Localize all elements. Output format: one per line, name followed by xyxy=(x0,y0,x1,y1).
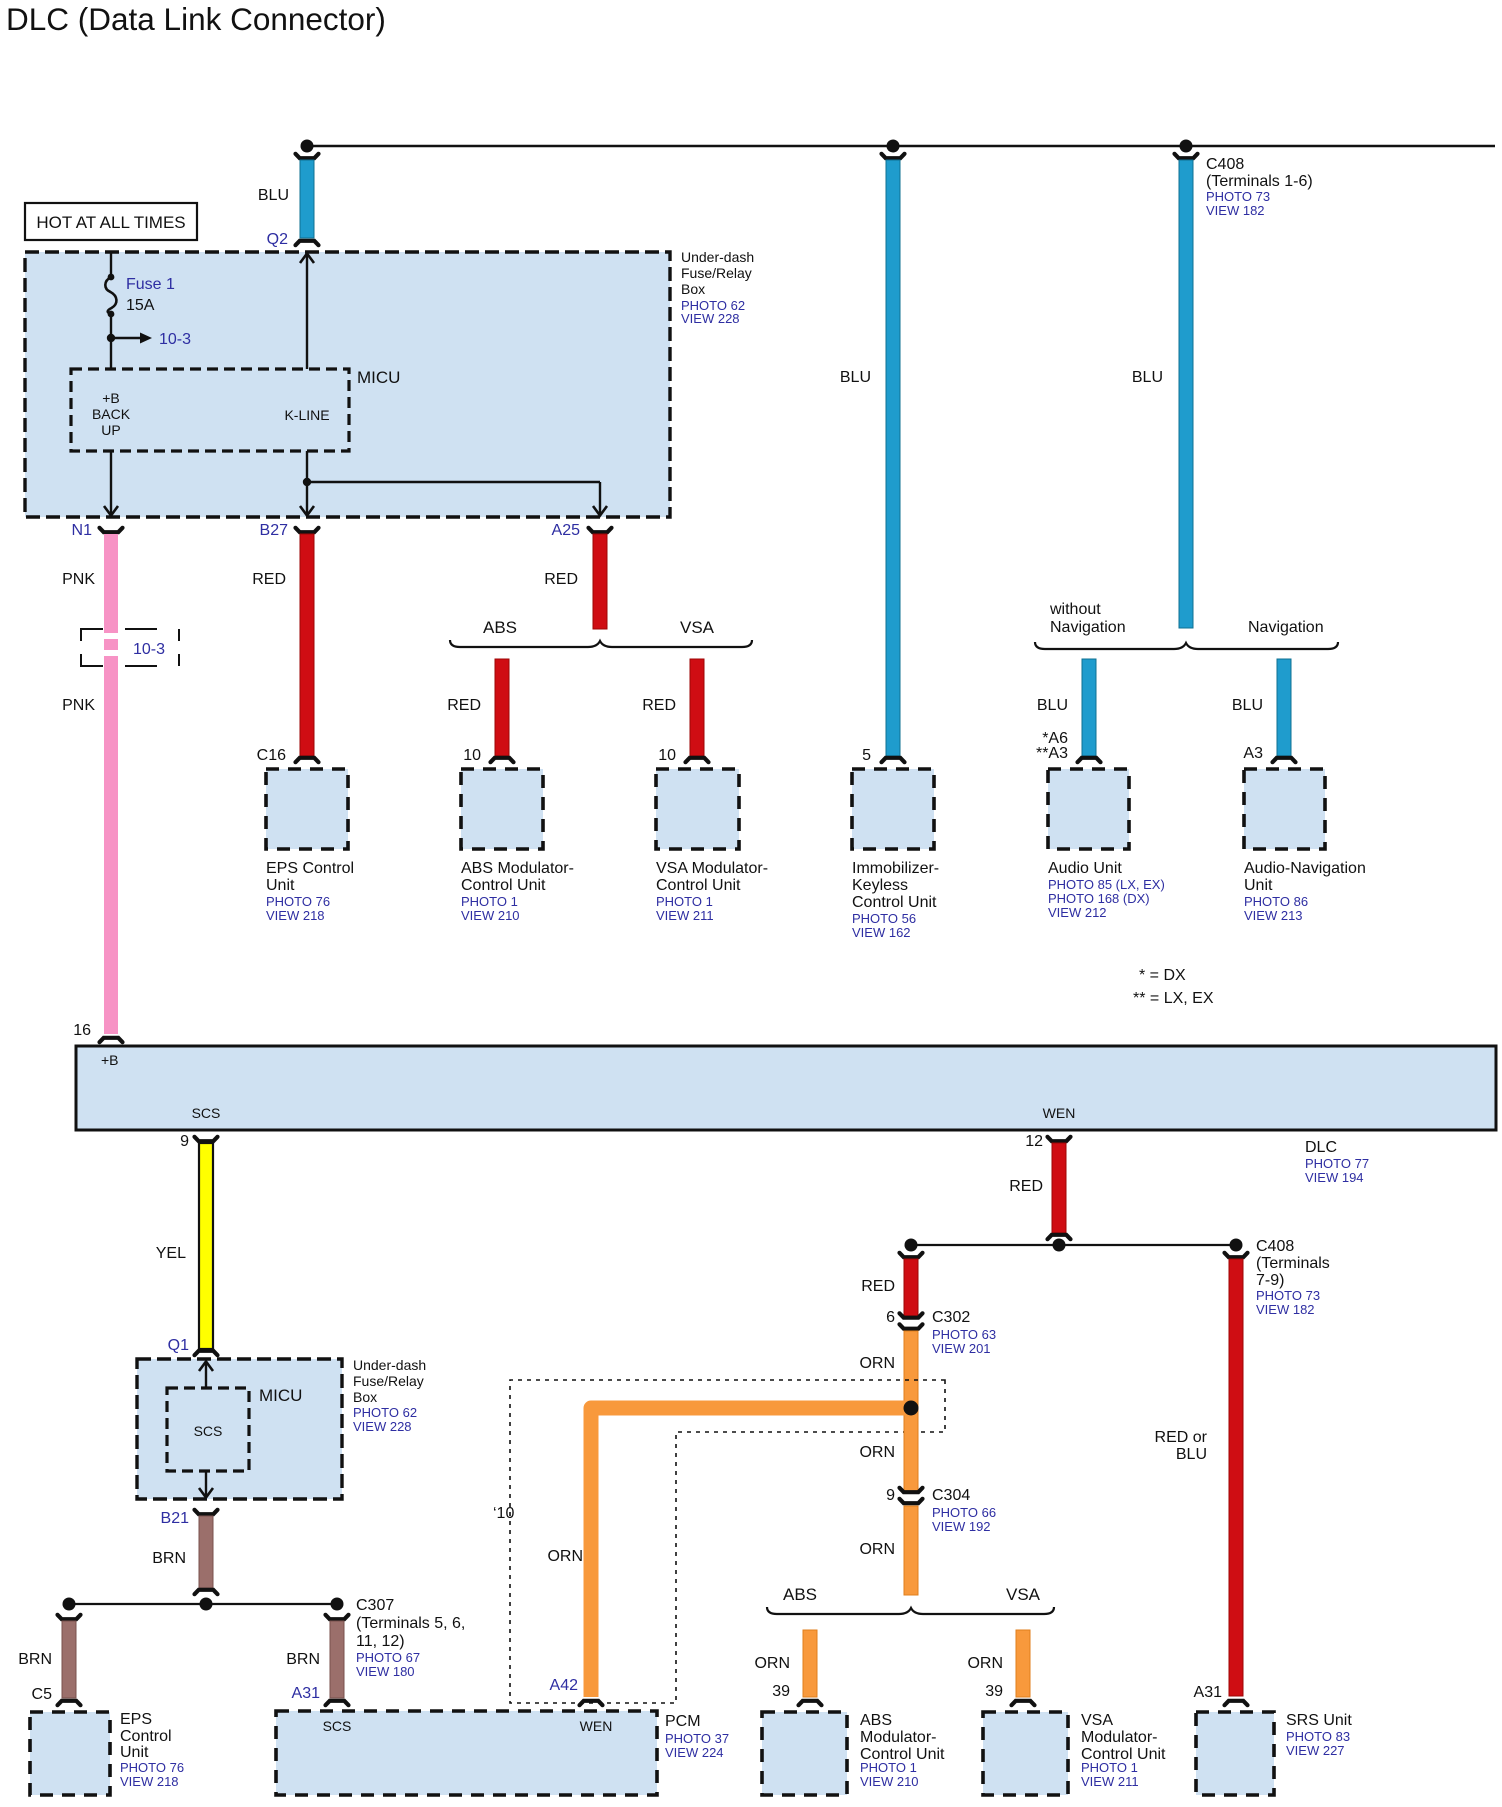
svg-text:15A: 15A xyxy=(126,297,155,314)
svg-text:C304: C304 xyxy=(932,1487,970,1504)
svg-text:VIEW 194: VIEW 194 xyxy=(1305,1170,1364,1185)
svg-text:BLU: BLU xyxy=(258,187,289,204)
svg-text:Q2: Q2 xyxy=(267,231,288,248)
svg-text:ORN: ORN xyxy=(967,1655,1003,1672)
wire BRN to EPS C5 xyxy=(62,1621,76,1698)
svg-text:VIEW 210: VIEW 210 xyxy=(860,1774,919,1789)
wire RED to VSA modulator xyxy=(690,659,704,756)
connector cap DLC pin 16 xyxy=(100,1038,123,1042)
svg-text:+B: +B xyxy=(102,390,120,406)
svg-text:BACK: BACK xyxy=(92,406,131,422)
svg-text:Q1: Q1 xyxy=(168,1337,189,1354)
svg-text:VSA: VSA xyxy=(1006,1585,1041,1604)
svg-text:DLC: DLC xyxy=(1305,1139,1337,1156)
svg-text:PHOTO 76: PHOTO 76 xyxy=(266,894,330,909)
svg-text:VIEW 211: VIEW 211 xyxy=(1081,1774,1139,1789)
svg-text:A25: A25 xyxy=(552,522,581,539)
svg-text:VSA: VSA xyxy=(1081,1712,1113,1729)
reference bracket 10-3 xyxy=(81,629,179,666)
wire ORN elbow to PCM A42 xyxy=(591,1408,908,1697)
svg-text:PHOTO 63: PHOTO 63 xyxy=(932,1327,996,1342)
wire BLU to Q2 xyxy=(300,160,314,238)
svg-text:PHOTO 86: PHOTO 86 xyxy=(1244,894,1308,909)
connector cap audio-nav xyxy=(1273,758,1296,762)
svg-text:10-3: 10-3 xyxy=(159,331,191,348)
svg-text:ABS: ABS xyxy=(483,618,517,637)
svg-text:PHOTO 77: PHOTO 77 xyxy=(1305,1156,1369,1171)
connector cap top of BLU Q2 wire xyxy=(296,154,319,158)
svg-text:PHOTO 83: PHOTO 83 xyxy=(1286,1729,1350,1744)
svg-text:N1: N1 xyxy=(72,522,93,539)
wire: K-LINE up to Q2 xyxy=(306,254,308,369)
svg-text:BLU: BLU xyxy=(1232,697,1263,714)
svg-text:EPS Control: EPS Control xyxy=(266,860,354,877)
svg-text:Fuse/Relay: Fuse/Relay xyxy=(681,265,752,281)
connector cap audio xyxy=(1078,758,1101,762)
svg-text:VIEW 228: VIEW 228 xyxy=(353,1419,412,1434)
svg-text:BRN: BRN xyxy=(18,1651,52,1668)
svg-text:(Terminals 5, 6,: (Terminals 5, 6, xyxy=(356,1615,465,1632)
svg-text:Audio-Navigation: Audio-Navigation xyxy=(1244,860,1366,877)
svg-text:VIEW 211: VIEW 211 xyxy=(656,908,714,923)
svg-text:BLU: BLU xyxy=(1176,1446,1207,1463)
svg-text:VIEW 227: VIEW 227 xyxy=(1286,1743,1345,1758)
svg-text:WEN: WEN xyxy=(580,1718,613,1734)
svg-text:UP: UP xyxy=(101,422,120,438)
svg-text:RED: RED xyxy=(642,697,676,714)
wire ORN to ABS modulator (39) xyxy=(803,1630,817,1697)
component box PCM (SCS/WEN) xyxy=(276,1711,657,1795)
svg-text:K-LINE: K-LINE xyxy=(284,407,329,423)
svg-text:PHOTO 1: PHOTO 1 xyxy=(1081,1760,1138,1775)
node: junction below WEN wire xyxy=(1053,1239,1066,1252)
svg-text:WEN: WEN xyxy=(1043,1105,1076,1121)
svg-text:Navigation: Navigation xyxy=(1248,619,1324,636)
svg-text:Control: Control xyxy=(120,1728,172,1745)
svg-text:without: without xyxy=(1049,601,1101,618)
svg-text:Modulator-: Modulator- xyxy=(1081,1729,1157,1746)
svg-text:6: 6 xyxy=(886,1309,895,1326)
wire: lower horizontal link line xyxy=(911,1244,1236,1246)
svg-text:PHOTO 66: PHOTO 66 xyxy=(932,1505,996,1520)
svg-text:HOT AT ALL TIMES: HOT AT ALL TIMES xyxy=(36,213,185,232)
component box: Under-dash Fuse/Relay Box (top) xyxy=(25,252,670,517)
svg-text:Under-dash: Under-dash xyxy=(681,249,754,265)
connector cap Q2 xyxy=(296,241,319,245)
svg-text:C408: C408 xyxy=(1206,156,1244,173)
connector C304 inline caps xyxy=(900,1488,923,1492)
component box EPS Control Unit (top row) xyxy=(266,769,348,849)
svg-text:VIEW 218: VIEW 218 xyxy=(120,1774,179,1789)
svg-text:SRS Unit: SRS Unit xyxy=(1286,1712,1352,1729)
svg-text:PHOTO 62: PHOTO 62 xyxy=(353,1405,417,1420)
svg-text:Control Unit: Control Unit xyxy=(656,877,741,894)
wire RED B27 to C16 xyxy=(300,534,314,756)
svg-text:Audio Unit: Audio Unit xyxy=(1048,860,1122,877)
wire RED to C302 xyxy=(904,1259,918,1316)
connector cap VSA pin 10 xyxy=(686,758,709,762)
svg-text:PHOTO 168 (DX): PHOTO 168 (DX) xyxy=(1048,891,1150,906)
svg-text:ORN: ORN xyxy=(859,1444,895,1461)
component bar DLC xyxy=(76,1046,1496,1130)
svg-text:B21: B21 xyxy=(161,1510,190,1527)
svg-text:EPS: EPS xyxy=(120,1711,152,1728)
connector cap top of immobilizer BLU wire xyxy=(882,154,905,158)
node: junction dot left xyxy=(301,140,314,153)
svg-text:10-3: 10-3 xyxy=(133,641,165,658)
svg-text:Navigation: Navigation xyxy=(1050,619,1126,636)
svg-text:ABS: ABS xyxy=(860,1712,892,1729)
svg-text:BLU: BLU xyxy=(1132,369,1163,386)
component box Audio-Navigation Unit xyxy=(1244,769,1325,849)
svg-text:Under-dash: Under-dash xyxy=(353,1357,426,1373)
svg-text:VIEW 228: VIEW 228 xyxy=(681,311,740,326)
svg-text:Keyless: Keyless xyxy=(852,877,908,894)
connector cap immobilizer pin 5 xyxy=(882,758,905,762)
wire: +B BACK UP down to N1 xyxy=(110,451,112,515)
wire PNK N1 to DLC pin 16 xyxy=(104,534,118,1034)
svg-text:SCS: SCS xyxy=(192,1105,221,1121)
svg-text:+B: +B xyxy=(101,1052,119,1068)
connector cap C5 xyxy=(58,1701,81,1705)
connector cap A25 xyxy=(589,528,612,532)
component box VSA Modulator-Control Unit (top row) xyxy=(656,769,739,849)
svg-text:PHOTO 56: PHOTO 56 xyxy=(852,911,916,926)
wire: Q1 into MICU SCS xyxy=(205,1362,207,1388)
wire: branch to A25 xyxy=(307,481,600,483)
svg-text:VSA: VSA xyxy=(680,618,715,637)
wire RED A25 stub xyxy=(593,534,607,629)
svg-text:ORN: ORN xyxy=(754,1655,790,1672)
component box Audio Unit xyxy=(1048,769,1129,849)
component box ABS Modulator-Control Unit (bottom) xyxy=(762,1712,847,1795)
svg-text:Control Unit: Control Unit xyxy=(461,877,546,894)
svg-text:9: 9 xyxy=(180,1133,189,1150)
connector cap B27 xyxy=(296,528,319,532)
svg-text:C5: C5 xyxy=(32,1686,53,1703)
svg-text:RED: RED xyxy=(252,571,286,588)
svg-text:VSA Modulator-: VSA Modulator- xyxy=(656,860,768,877)
svg-text:PHOTO 1: PHOTO 1 xyxy=(461,894,518,909)
wire RED to ABS modulator xyxy=(495,659,509,756)
svg-text:VIEW 180: VIEW 180 xyxy=(356,1664,415,1679)
svg-text:ABS: ABS xyxy=(783,1585,817,1604)
svg-text:VIEW 192: VIEW 192 xyxy=(932,1519,991,1534)
node: junction center xyxy=(200,1598,213,1611)
connector cap top of A31 BRN wire xyxy=(326,1615,349,1619)
wire BRN to PCM A31 xyxy=(330,1621,344,1698)
node: junction C307 xyxy=(331,1598,344,1611)
svg-text:VIEW 210: VIEW 210 xyxy=(461,908,520,923)
svg-text:SCS: SCS xyxy=(323,1718,352,1734)
connector cap DLC pin 9 xyxy=(195,1137,218,1141)
svg-text:MICU: MICU xyxy=(259,1386,302,1405)
svg-text:A31: A31 xyxy=(1194,1684,1223,1701)
svg-text:C16: C16 xyxy=(257,747,286,764)
svg-text:12: 12 xyxy=(1025,1133,1043,1150)
connector cap top of RED or BLU wire xyxy=(1225,1253,1248,1257)
svg-text:PHOTO 73: PHOTO 73 xyxy=(1256,1288,1320,1303)
wire ORN C302 to junction xyxy=(904,1331,918,1408)
brace Navigation options xyxy=(1035,642,1338,649)
svg-text:PHOTO 67: PHOTO 67 xyxy=(356,1650,420,1665)
svg-text:Unit: Unit xyxy=(1244,877,1273,894)
svg-text:* = DX: * = DX xyxy=(1139,967,1186,984)
node: junction at C408 7-9 xyxy=(1230,1239,1243,1252)
node: junction at RED 6 xyxy=(905,1239,918,1252)
svg-text:16: 16 xyxy=(73,1022,91,1039)
wire: fuse feed vertical xyxy=(110,252,112,277)
wire YEL SCS xyxy=(199,1143,213,1349)
svg-text:VIEW 201: VIEW 201 xyxy=(932,1341,991,1356)
wire: arrow to 10-3 xyxy=(111,337,142,339)
wire ORN junction to C304 xyxy=(904,1408,918,1491)
connector cap A42 xyxy=(580,1701,603,1705)
svg-text:YEL: YEL xyxy=(156,1245,186,1262)
connector cap top of C408 BLU wire xyxy=(1175,154,1198,158)
svg-text:10: 10 xyxy=(463,747,481,764)
wire BLU to Audio-Navigation Unit xyxy=(1277,659,1291,756)
svg-text:7-9): 7-9) xyxy=(1256,1272,1284,1289)
connector C302 inline caps xyxy=(900,1313,923,1317)
svg-text:PHOTO 85 (LX, EX): PHOTO 85 (LX, EX) xyxy=(1048,877,1165,892)
connector cap A31 srs xyxy=(1225,1701,1248,1705)
dashed outline '10 PCM routing xyxy=(510,1380,945,1703)
svg-text:RED: RED xyxy=(447,697,481,714)
connector cap WEN wire bottom xyxy=(1048,1235,1071,1239)
svg-text:B27: B27 xyxy=(260,522,289,539)
svg-text:ABS Modulator-: ABS Modulator- xyxy=(461,860,574,877)
svg-text:BRN: BRN xyxy=(152,1550,186,1567)
component box: Under-dash Fuse/Relay Box (lower MICU) xyxy=(137,1359,342,1499)
component box EPS Control Unit (bottom) xyxy=(30,1712,110,1795)
connector cap C16 xyxy=(296,758,319,762)
node: junction dot right xyxy=(1180,140,1193,153)
svg-text:VIEW 182: VIEW 182 xyxy=(1256,1302,1315,1317)
wire BLU C408 terminals 1-6 xyxy=(1179,160,1193,628)
svg-text:Control Unit: Control Unit xyxy=(852,894,937,911)
svg-text:RED: RED xyxy=(1009,1178,1043,1195)
svg-text:MICU: MICU xyxy=(357,368,400,387)
block MICU SCS inner box xyxy=(167,1388,249,1471)
svg-text:BLU: BLU xyxy=(840,369,871,386)
svg-text:9: 9 xyxy=(886,1487,895,1504)
svg-text:A3: A3 xyxy=(1243,745,1263,762)
component box ABS Modulator-Control Unit (top row) xyxy=(461,769,543,849)
component box SRS Unit xyxy=(1196,1712,1274,1795)
connector cap B21 xyxy=(195,1510,218,1514)
svg-text:A31: A31 xyxy=(292,1685,321,1702)
brace ABS/VSA (bottom) xyxy=(767,1607,1054,1614)
svg-text:**A3: **A3 xyxy=(1036,745,1068,762)
node: junction dot middle xyxy=(887,140,900,153)
svg-text:PHOTO 76: PHOTO 76 xyxy=(120,1760,184,1775)
svg-text:Modulator-: Modulator- xyxy=(860,1729,936,1746)
node: junction K-LINE branch xyxy=(303,478,311,486)
component box Immobilizer-Keyless Control Unit xyxy=(852,769,934,849)
svg-text:VIEW 218: VIEW 218 xyxy=(266,908,325,923)
connector cap top of RED 6 wire xyxy=(900,1253,923,1257)
svg-text:(Terminals: (Terminals xyxy=(1256,1255,1330,1272)
svg-text:PNK: PNK xyxy=(62,697,95,714)
svg-text:RED: RED xyxy=(861,1278,895,1295)
svg-text:VIEW 162: VIEW 162 xyxy=(852,925,911,940)
svg-text:PCM: PCM xyxy=(665,1713,701,1730)
svg-text:Box: Box xyxy=(353,1389,377,1405)
svg-text:SCS: SCS xyxy=(194,1423,223,1439)
wire: fuse to MICU xyxy=(110,314,112,369)
node: ORN junction dot xyxy=(904,1401,919,1416)
wire RED or BLU to SRS xyxy=(1229,1259,1243,1696)
wire ORN to VSA modulator (39) xyxy=(1016,1630,1030,1697)
wire: top horizontal bus xyxy=(307,145,1495,147)
svg-text:Fuse/Relay: Fuse/Relay xyxy=(353,1373,424,1389)
component box VSA Modulator-Control Unit (bottom) xyxy=(983,1712,1068,1795)
wire RED WEN from pin 12 xyxy=(1052,1143,1066,1233)
svg-text:39: 39 xyxy=(985,1683,1003,1700)
wire BLU to immobilizer xyxy=(886,160,900,756)
wire interruption gaps on PNK xyxy=(102,633,120,639)
svg-text:A42: A42 xyxy=(550,1677,579,1694)
fuse Fuse 1 15A xyxy=(108,274,115,281)
svg-text:‘10: ‘10 xyxy=(493,1505,514,1522)
connector cap BRN bottom xyxy=(195,1590,218,1594)
wire: K-LINE down to B27 xyxy=(306,451,308,515)
node: tap to 10-3 xyxy=(107,334,115,342)
svg-text:C302: C302 xyxy=(932,1309,970,1326)
svg-text:Box: Box xyxy=(681,281,705,297)
connector cap ABS pin 10 xyxy=(491,758,514,762)
svg-text:RED or: RED or xyxy=(1155,1429,1208,1446)
svg-text:5: 5 xyxy=(862,747,871,764)
brace ABS/VSA (top) xyxy=(450,640,752,647)
wire ORN C304 down xyxy=(904,1506,918,1595)
svg-text:(Terminals 1-6): (Terminals 1-6) xyxy=(1206,173,1313,190)
wire BRN B21 down xyxy=(199,1516,213,1588)
svg-text:11, 12): 11, 12) xyxy=(356,1633,405,1650)
svg-text:PHOTO 37: PHOTO 37 xyxy=(665,1731,729,1746)
block MICU (top) xyxy=(71,369,349,451)
svg-text:VIEW 212: VIEW 212 xyxy=(1048,905,1107,920)
connector cap A31 scs xyxy=(326,1701,349,1705)
connector cap VSA 39 xyxy=(1012,1701,1035,1705)
svg-text:** = LX, EX: ** = LX, EX xyxy=(1133,990,1214,1007)
svg-text:Immobilizer-: Immobilizer- xyxy=(852,860,939,877)
svg-text:BLU: BLU xyxy=(1037,697,1068,714)
svg-text:ORN: ORN xyxy=(547,1548,583,1565)
svg-text:DLC (Data Link Connector): DLC (Data Link Connector) xyxy=(6,1,386,37)
svg-text:Unit: Unit xyxy=(120,1744,149,1761)
svg-text:ORN: ORN xyxy=(859,1541,895,1558)
svg-text:PHOTO 1: PHOTO 1 xyxy=(656,894,713,909)
connector cap ABS 39 xyxy=(799,1701,822,1705)
svg-text:BRN: BRN xyxy=(286,1651,320,1668)
wire BLU to Audio Unit xyxy=(1082,659,1096,756)
connector cap DLC pin 12 xyxy=(1048,1137,1071,1141)
svg-text:C307: C307 xyxy=(356,1597,394,1614)
connector cap top of C5 BRN wire xyxy=(58,1615,81,1619)
svg-text:Fuse 1: Fuse 1 xyxy=(126,276,175,293)
svg-text:PHOTO 73: PHOTO 73 xyxy=(1206,189,1270,204)
wire: bottom junction horizontal xyxy=(69,1603,337,1605)
node: junction C5 xyxy=(63,1598,76,1611)
svg-text:VIEW 224: VIEW 224 xyxy=(665,1745,724,1760)
svg-text:VIEW 213: VIEW 213 xyxy=(1244,908,1303,923)
svg-text:ORN: ORN xyxy=(859,1355,895,1372)
svg-text:PNK: PNK xyxy=(62,571,95,588)
callout box HOT AT ALL TIMES xyxy=(25,203,197,240)
connector cap N1 xyxy=(100,528,123,532)
svg-text:Unit: Unit xyxy=(266,877,295,894)
svg-text:39: 39 xyxy=(772,1683,790,1700)
wire: MICU SCS down to B21 xyxy=(205,1471,207,1497)
svg-text:VIEW 182: VIEW 182 xyxy=(1206,203,1265,218)
svg-text:RED: RED xyxy=(544,571,578,588)
connector cap Q1 xyxy=(195,1351,218,1355)
svg-text:10: 10 xyxy=(658,747,676,764)
svg-text:PHOTO 1: PHOTO 1 xyxy=(860,1760,917,1775)
svg-text:C408: C408 xyxy=(1256,1238,1294,1255)
